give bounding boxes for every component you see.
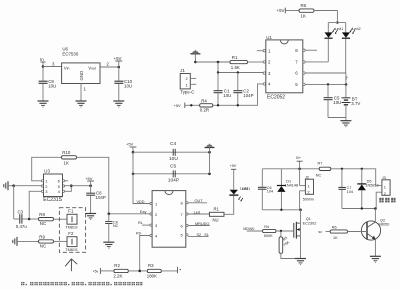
pin 4 bbox=[150, 234, 152, 236]
svg-text:Q1: Q1 bbox=[306, 217, 311, 221]
svg-text:Led1: Led1 bbox=[335, 27, 343, 31]
svg-text:C3: C3 bbox=[18, 209, 24, 214]
svg-text:+5V: +5V bbox=[230, 164, 237, 168]
wire LED top rail bbox=[328, 22, 345, 24]
wire R4 to pin4 bbox=[213, 84, 263, 105]
svg-text:Vin: Vin bbox=[64, 65, 70, 70]
wire R6b to base bbox=[348, 231, 368, 233]
svg-text:C4: C4 bbox=[170, 141, 176, 147]
svg-text:+5V: +5V bbox=[174, 103, 182, 108]
ground (battery) bbox=[345, 118, 347, 121]
LED Led1 bbox=[327, 23, 329, 33]
wire to R1 bbox=[195, 61, 230, 63]
pin 1 bbox=[41, 180, 43, 182]
wire R1 to pin2 bbox=[248, 61, 264, 63]
svg-text:EC231S: EC231S bbox=[43, 197, 62, 203]
transistor Q2 S8050 bbox=[361, 221, 380, 240]
op IC U1 EC2052 box bbox=[266, 40, 303, 93]
wire rail1 bbox=[133, 151, 210, 153]
resistor R3 bbox=[147, 269, 161, 272]
svg-text:MRUDO: MRUDO bbox=[195, 222, 209, 226]
pin 8 stub (NC) bbox=[303, 49, 305, 51]
pin 3 bbox=[41, 190, 43, 192]
svg-text:GND: GND bbox=[79, 71, 84, 81]
svg-text:C5: C5 bbox=[170, 164, 176, 170]
node rail1 left bbox=[132, 151, 135, 154]
ground (Q2 emitter) bbox=[370, 256, 381, 262]
buzzer label (CJK smudge) bbox=[379, 198, 383, 203]
wire R3 to terminal bbox=[161, 270, 177, 272]
resistor R7 bbox=[319, 167, 331, 170]
svg-text:Vout: Vout bbox=[88, 65, 96, 70]
svg-text:NC: NC bbox=[40, 221, 46, 226]
svg-text:B+: B+ bbox=[296, 156, 302, 160]
capacitor C5 bbox=[327, 84, 329, 97]
resistor R1 bbox=[230, 60, 248, 63]
svg-text:NC: NC bbox=[40, 243, 46, 248]
svg-text:R6: R6 bbox=[332, 226, 337, 230]
svg-text:R3: R3 bbox=[148, 263, 154, 268]
svg-text:NC: NC bbox=[113, 224, 119, 228]
wire R4b to gate bbox=[276, 230, 294, 232]
wire rail2 bbox=[133, 173, 210, 175]
wire pin 3 down bbox=[29, 191, 41, 219]
svg-text:10U: 10U bbox=[223, 93, 231, 98]
wire to R4b bbox=[247, 230, 263, 232]
wire pin6 to battery rail bbox=[305, 72, 346, 74]
resistor R8 bbox=[39, 218, 54, 221]
resistor R6 bbox=[299, 9, 314, 12]
capacitor C8 (NC) bbox=[108, 214, 110, 221]
svg-text:U1: U1 bbox=[266, 35, 272, 40]
node divider junction bbox=[138, 270, 141, 273]
resistor R10 bbox=[62, 156, 77, 159]
pin 3 bbox=[263, 72, 265, 74]
resistor R2 bbox=[114, 269, 128, 272]
svg-text:1K: 1K bbox=[333, 236, 338, 240]
pin 6 stub bbox=[65, 180, 68, 182]
svg-text:R9: R9 bbox=[136, 232, 141, 236]
svg-text:10U: 10U bbox=[169, 156, 178, 162]
ground (C10) bbox=[113, 101, 124, 107]
diode D1 1N4148 bbox=[280, 169, 282, 186]
pin 8 stub OUT bbox=[188, 202, 207, 204]
wire to R6b bbox=[326, 231, 331, 233]
node rail1 right + earth ground bbox=[208, 151, 211, 154]
svg-text:104: 104 bbox=[347, 190, 353, 194]
resistor R4b 500K bbox=[263, 229, 276, 232]
op IC U3 box bbox=[44, 174, 63, 197]
svg-text:In: In bbox=[40, 57, 44, 62]
svg-text:NU: NU bbox=[213, 218, 219, 223]
svg-text:RL: RL bbox=[138, 221, 143, 225]
wire battery rail vertical bbox=[345, 73, 347, 97]
earth ground (R1 net) bbox=[190, 50, 200, 53]
svg-text:Led2: Led2 bbox=[352, 27, 360, 31]
wire R8 to transducer F1 bbox=[54, 218, 68, 220]
pin 7 bbox=[303, 61, 305, 63]
svg-text:MDW0: MDW0 bbox=[243, 227, 254, 231]
ground (C8) bbox=[103, 242, 114, 248]
LED Led3 bbox=[229, 194, 238, 196]
direction arrow bbox=[70, 259, 72, 271]
ground (C6) bbox=[85, 214, 96, 220]
svg-text:500K: 500K bbox=[264, 234, 273, 238]
wire to R9 bbox=[17, 240, 39, 242]
wire input to Vin, pin 3 bbox=[43, 66, 62, 68]
svg-text:1N4148: 1N4148 bbox=[285, 184, 298, 188]
svg-text:+5V: +5V bbox=[277, 8, 285, 13]
svg-text:S1: S1 bbox=[204, 233, 209, 237]
wire R5 to source/ground bbox=[281, 253, 301, 258]
capacitor C6 bbox=[90, 186, 92, 193]
svg-text:U3: U3 bbox=[44, 168, 50, 173]
wire top supply rail (left of R7) bbox=[262, 168, 319, 170]
wire Eny net to pin 2 bbox=[109, 213, 150, 215]
wire pin 4 to +5V net bbox=[65, 186, 72, 192]
svg-text:500hm: 500hm bbox=[303, 197, 314, 201]
dashed sensor enclosure bbox=[59, 208, 85, 253]
pin 6 stub MRUDO bbox=[188, 225, 210, 227]
pin 1 bbox=[150, 202, 152, 204]
op IC U2 box bbox=[152, 191, 186, 248]
power flag +5V (U3) bbox=[90, 181, 92, 186]
wire rail R7 to J3 bbox=[331, 169, 376, 186]
wire collector rail bbox=[342, 208, 376, 210]
svg-text:R9: R9 bbox=[39, 235, 45, 240]
resistor R4 bbox=[200, 104, 213, 107]
pin 1 stub (NC) bbox=[257, 50, 263, 52]
svg-text:S2: S2 bbox=[197, 233, 202, 237]
pin 5 stub S2 S1 bbox=[188, 235, 208, 237]
wire pin 4 to divider bbox=[140, 236, 150, 271]
node ground junction bbox=[12, 184, 15, 187]
svg-text:Eay: Eay bbox=[140, 210, 147, 214]
svg-text:Type-C: Type-C bbox=[180, 89, 194, 94]
wire GND pin 1 bbox=[80, 84, 82, 102]
capacitor C3b (inline) bbox=[172, 170, 174, 177]
pin 3 stub RL bbox=[142, 224, 150, 226]
wire R10 to U2 pin2 net bbox=[77, 157, 109, 213]
node LED rail junction bbox=[336, 21, 338, 23]
wire battery to ground rail bbox=[328, 105, 346, 118]
wire flag to R4 bbox=[185, 104, 200, 106]
node C3/R8 junction bbox=[28, 218, 31, 221]
wire to R8 bbox=[29, 218, 38, 220]
svg-text:3.7V: 3.7V bbox=[351, 101, 360, 106]
capacitor C6b (speaker) bbox=[261, 169, 263, 187]
svg-text:2: 2 bbox=[107, 61, 110, 66]
svg-text:R8: R8 bbox=[39, 212, 45, 217]
node input junction bbox=[42, 65, 45, 68]
svg-text:+5V: +5V bbox=[126, 142, 134, 147]
wire Vout pin 2 bbox=[100, 66, 119, 68]
pin 5 bbox=[303, 83, 305, 85]
earth ground (R9 input) bbox=[13, 237, 17, 246]
svg-text:R10: R10 bbox=[62, 150, 71, 155]
wire +5V down to VDD pin1 bbox=[133, 152, 150, 203]
svg-text:TM81S: TM81S bbox=[65, 248, 78, 252]
svg-text:TM81S: TM81S bbox=[65, 226, 78, 230]
svg-text:+5v: +5v bbox=[93, 270, 99, 274]
wire flag to R6 bbox=[285, 10, 299, 12]
wire down to C3 row bbox=[13, 186, 15, 219]
svg-text:104P: 104P bbox=[96, 195, 106, 200]
svg-text:EC7530: EC7530 bbox=[62, 52, 78, 57]
wire drain rail bbox=[262, 209, 300, 211]
svg-text:104P: 104P bbox=[168, 178, 179, 184]
ground (U6 GND) bbox=[76, 101, 87, 107]
note text (CJK smudge row) bbox=[21, 282, 142, 285]
svg-text:R6: R6 bbox=[301, 3, 307, 8]
wire feedback R10 loop bbox=[32, 157, 62, 181]
wire R6 to LED rail bbox=[314, 11, 337, 23]
pin 3 bbox=[150, 224, 152, 226]
power flag +5V (regulator output) bbox=[118, 61, 120, 67]
pin 8 bbox=[186, 202, 188, 204]
svg-text:Led1: Led1 bbox=[242, 187, 250, 191]
svg-text:104: 104 bbox=[267, 190, 273, 194]
diode D5 1N5819 bbox=[361, 169, 363, 184]
svg-text:R4: R4 bbox=[264, 225, 269, 229]
capacitor C1 bbox=[217, 73, 219, 91]
pin 4 bbox=[63, 190, 65, 192]
svg-text:J1: J1 bbox=[180, 68, 185, 73]
wire pin7 to Led1 bbox=[305, 61, 328, 63]
capacitor C3 0.47u bbox=[14, 218, 20, 220]
svg-text:R1: R1 bbox=[214, 207, 220, 212]
wire to R2 bbox=[100, 270, 114, 272]
svg-text:0.47u: 0.47u bbox=[16, 224, 28, 229]
svg-text:1: 1 bbox=[84, 87, 87, 92]
pin 2 bbox=[263, 61, 265, 63]
pin 6 bbox=[63, 180, 65, 182]
wire R1b to LED3 bbox=[224, 196, 234, 215]
svg-text:0.2R: 0.2R bbox=[200, 108, 209, 113]
svg-text:NC: NC bbox=[316, 173, 322, 177]
ground (C9) bbox=[38, 101, 49, 107]
capacitor C4 (inline) bbox=[172, 149, 174, 156]
node R1 left junction bbox=[194, 61, 197, 64]
power flag B+ bbox=[298, 168, 301, 171]
resistor R5 (pulldown) bbox=[280, 231, 282, 237]
capacitor C10 bbox=[118, 67, 120, 81]
capacitor C9 bbox=[42, 67, 44, 81]
earth ground (U3 pin2) bbox=[4, 181, 8, 190]
node +5V junction bbox=[89, 184, 92, 187]
pin 5 bbox=[186, 234, 188, 236]
wire R9 to transducer F2 bbox=[54, 240, 68, 242]
svg-text:10U: 10U bbox=[48, 84, 56, 89]
svg-text:S8050: S8050 bbox=[378, 222, 389, 226]
resistor R1b NU bbox=[209, 212, 224, 216]
svg-text:1K: 1K bbox=[301, 14, 306, 19]
svg-text:R7: R7 bbox=[318, 161, 323, 165]
svg-text:VDD: VDD bbox=[137, 200, 145, 204]
svg-text:104P: 104P bbox=[243, 93, 253, 98]
svg-text:+5V: +5V bbox=[85, 176, 93, 181]
svg-text:1.5K: 1.5K bbox=[231, 65, 240, 70]
pin 7 bbox=[186, 213, 188, 215]
svg-text:2.2K: 2.2K bbox=[113, 273, 122, 278]
op IC U6 EC7530 box bbox=[62, 63, 100, 84]
ground (Q1 source) bbox=[295, 259, 306, 265]
pin 5 bbox=[63, 185, 65, 187]
battery BT 3.7V bbox=[342, 97, 351, 99]
wire row3 to pin3 bbox=[218, 62, 263, 73]
svg-text:F2: F2 bbox=[68, 231, 74, 236]
node pin5/pin4 junction bbox=[70, 184, 73, 187]
capacitor C2 bbox=[237, 73, 239, 91]
pin 6 bbox=[186, 224, 188, 226]
wire R2 to R3 bbox=[128, 270, 147, 272]
wire pin5 to battery rail bbox=[305, 83, 346, 85]
wire to pin 2 bbox=[14, 185, 42, 187]
wire pin 7 Led bbox=[188, 213, 209, 215]
svg-text:OUT: OUT bbox=[195, 199, 204, 203]
capacitor C7 bbox=[341, 169, 343, 187]
svg-text:+5V: +5V bbox=[114, 56, 122, 61]
resistor R6b 1K bbox=[330, 230, 347, 233]
svg-text:180K: 180K bbox=[147, 273, 157, 278]
svg-text:Led: Led bbox=[194, 210, 200, 214]
LED Led2 bbox=[345, 23, 347, 33]
pin 2 bbox=[41, 185, 43, 187]
pin 6 bbox=[303, 72, 305, 74]
wire rails right vertical bbox=[209, 152, 211, 174]
svg-text:F1: F1 bbox=[68, 209, 74, 214]
svg-text:1K: 1K bbox=[64, 160, 69, 165]
svg-text:R2: R2 bbox=[114, 263, 120, 268]
svg-text:sc: sc bbox=[318, 230, 322, 234]
svg-text:3: 3 bbox=[52, 61, 55, 66]
node row2/row3 junction bbox=[217, 61, 220, 64]
node Vout junction bbox=[118, 66, 121, 69]
wire pin 5 to +5V bbox=[65, 185, 91, 187]
pin 4 bbox=[263, 83, 265, 85]
svg-text:R1: R1 bbox=[232, 55, 238, 60]
svg-text:EC2052: EC2052 bbox=[267, 95, 285, 101]
resistor R9 bbox=[39, 240, 54, 243]
svg-text:10U: 10U bbox=[124, 84, 132, 89]
transistor Q1 EC2302 bbox=[293, 223, 295, 238]
svg-text:10U: 10U bbox=[333, 100, 341, 105]
svg-text:R4: R4 bbox=[201, 99, 207, 104]
svg-text:EC2302: EC2302 bbox=[303, 222, 317, 226]
connector J2 bbox=[299, 169, 301, 186]
pin 2 bbox=[150, 213, 152, 215]
